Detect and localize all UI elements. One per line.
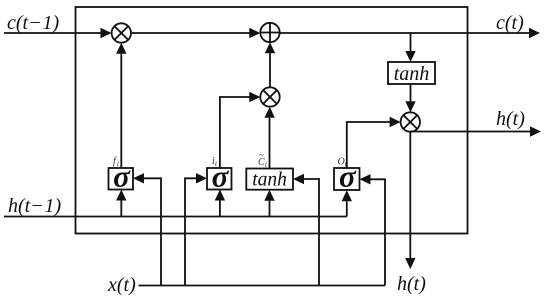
wire c line down to tanh box [410,33,412,51]
svg-text:1): 1) [43,12,60,34]
cell boundary box [76,7,468,234]
svg-text:h(t: h(t [8,195,31,217]
wire sigma3 output up then right to X3 [347,122,390,168]
wire X1 to plus [131,32,250,34]
svg-text:c(t): c(t) [496,12,524,34]
sigma2 gate box (input) [207,168,232,190]
wire h branch up into tanh gate bottom [269,201,271,217]
wire x branch up then left into tanh gate right [304,179,319,286]
multiply node X2 (input gate product) [260,87,279,106]
wire X2 up to plus [269,53,271,87]
wire c(t-1) input to multiply [4,32,102,34]
wire x branch up then left into sigma1 right [144,178,161,285]
svg-text:1): 1) [45,195,62,217]
wire sigma2 output up then right to X2 [220,97,250,168]
svg-text:tanh: tanh [252,170,287,191]
svg-text:−: − [30,12,41,34]
wire x branch up then right into sigma2 left [185,178,196,285]
wire plus to c(t) output [280,32,529,34]
svg-text:c(t: c(t [7,12,29,34]
wire X3 right to h(t) output [410,131,530,133]
multiply node X1 (forget gate product) [112,23,131,42]
tanh box (output activation) [388,62,435,84]
wire X3 down to h(t) bottom output [409,132,411,258]
svg-text:σ: σ [113,159,131,194]
wire x end up then left into sigma3 right [371,179,386,285]
svg-text:h(t): h(t) [397,273,426,295]
wire sigma1 output up to X1 [120,54,122,168]
wire h branch up into sigma1 bottom [120,201,122,217]
wire h branch up into sigma2 bottom [219,201,221,217]
svg-text:~: ~ [259,150,264,160]
svg-text:−: − [32,195,43,217]
svg-text:h(t): h(t) [496,108,525,130]
wire x(t) input line [139,285,386,287]
svg-text:x(t): x(t) [107,274,136,296]
sigma3 gate box (output) [334,168,360,190]
tanh gate box (candidate) [246,169,293,190]
wire h line up into sigma3 bottom [346,201,348,216]
multiply node X3 (output gate product) [401,112,420,131]
wire h(t-1) input line [4,216,347,218]
svg-text:tanh: tanh [394,63,430,85]
add node P1 [260,23,279,42]
wire tanh gate output up to X2 [269,118,271,169]
sigma1 gate box (forget) [109,168,134,190]
wire tanh box down to X3 [410,84,412,101]
